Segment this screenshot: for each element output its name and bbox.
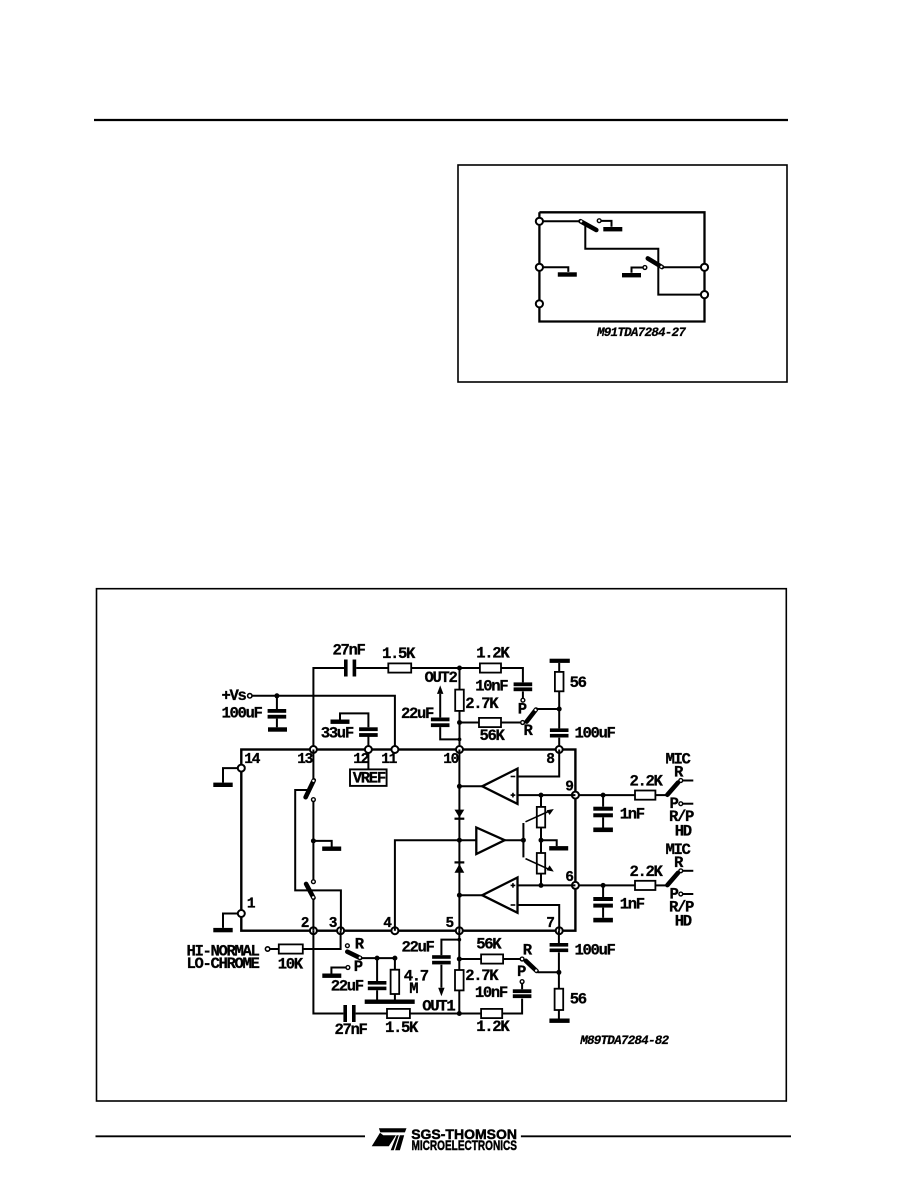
contact R (bottom left) xyxy=(346,944,350,948)
ground (P bottom left) xyxy=(322,974,341,978)
ground (internal) xyxy=(322,847,341,851)
svg-text:7: 7 xyxy=(546,916,554,932)
svg-text:9: 9 xyxy=(565,780,573,796)
svg-text:1.5K: 1.5K xyxy=(382,645,416,663)
capacitor 100uF (pin7) xyxy=(550,931,569,973)
svg-text:3: 3 xyxy=(329,916,337,932)
resistor 1.5K (bottom) xyxy=(387,1009,410,1018)
label 1nF ch1 xyxy=(620,805,645,823)
switch lever R/P (bottom) xyxy=(526,961,538,972)
junction: 1nF tap ch1 xyxy=(601,793,606,798)
junction: 22uF / pin10 riser xyxy=(458,738,462,742)
wire: pot chain xyxy=(540,795,542,885)
arrow OUT2 xyxy=(437,685,443,717)
svg-text:1nF: 1nF xyxy=(620,896,645,914)
capacitor 27nF (bottom) xyxy=(343,1005,355,1022)
svg-text:56K: 56K xyxy=(480,727,506,745)
fig1 caption M91TDA7284-27 xyxy=(596,326,686,340)
ground rail (22uF/4.7M) xyxy=(365,1000,415,1004)
label 33uF xyxy=(321,724,354,742)
label MIC ch2 xyxy=(666,841,691,859)
svg-text:10: 10 xyxy=(443,752,458,768)
pin 13 xyxy=(297,746,317,768)
wire: A1 inverting input to pin8 xyxy=(518,750,560,777)
contact P MIC ch2 xyxy=(679,892,693,896)
svg-text:22uF: 22uF xyxy=(331,978,364,996)
label LO-CHROME xyxy=(187,955,260,973)
ground (pin1) xyxy=(213,928,232,932)
fig1 wire: SW3 contact to ground xyxy=(632,268,644,273)
arrow OUT1 xyxy=(438,965,444,997)
capacitor 33uF xyxy=(359,727,378,737)
svg-text:1nF: 1nF xyxy=(620,805,645,823)
terminal +Vs xyxy=(248,694,252,698)
label R ch2 xyxy=(674,854,684,872)
capacitor 27nF (top) xyxy=(344,660,356,677)
top horizontal rule xyxy=(94,119,788,121)
label 1.2K (bottom) xyxy=(476,1018,510,1036)
ground (pot node) xyxy=(549,846,568,850)
wire: 2.2K to lever ch2 xyxy=(655,884,666,886)
label 22uF (OUT1) xyxy=(402,939,435,957)
label HI-NORMAL xyxy=(187,942,260,960)
resistor 1.2K (bottom) xyxy=(481,1009,502,1018)
svg-text:8: 8 xyxy=(546,752,554,768)
wire: node to internal ground xyxy=(313,841,331,847)
contact R (top) xyxy=(521,721,525,725)
wire: pin4 riser to A2 input xyxy=(395,840,476,931)
svg-text:22uF: 22uF xyxy=(401,705,434,723)
wire: A1 non-inverting input to pin9 xyxy=(518,794,576,796)
svg-text:+Vs: +Vs xyxy=(222,687,247,705)
contact R (bottom) xyxy=(520,957,524,961)
wire: 22uF to pin10 riser xyxy=(440,727,459,739)
svg-text:2.7K: 2.7K xyxy=(465,967,499,985)
wire: P contact to ground xyxy=(331,968,346,974)
ground (supply 100uF) xyxy=(268,727,287,731)
wire: pin1 to ground xyxy=(223,914,238,928)
label 100uF (supply) xyxy=(222,705,263,723)
svg-text:100uF: 100uF xyxy=(575,942,616,960)
svg-text:27nF: 27nF xyxy=(333,642,366,660)
label 56 (top) xyxy=(570,674,587,692)
pin 8 xyxy=(546,746,562,768)
junction: internal ground node xyxy=(311,838,316,843)
pin 6 xyxy=(565,870,579,889)
label HD ch1 xyxy=(675,822,692,840)
terminal HI/LO input xyxy=(265,947,269,951)
internal switch lever A xyxy=(306,780,315,798)
footer rule right xyxy=(521,1135,791,1137)
svg-text:M89TDA7284-82: M89TDA7284-82 xyxy=(579,1034,669,1048)
label 10nF (bottom) xyxy=(475,984,508,1002)
label R/P ch1 xyxy=(669,808,694,826)
capacitor 22uF (bottom left) xyxy=(368,958,387,999)
ground (pin14) xyxy=(213,783,232,787)
label 56 (bottom) xyxy=(570,991,587,1009)
wire: pin to 2.2K ch2 xyxy=(579,884,635,886)
ground (56 bottom) xyxy=(549,1019,569,1023)
pin 2 xyxy=(301,916,317,934)
label 27nF (bottom) xyxy=(335,1021,368,1039)
svg-text:OUT2: OUT2 xyxy=(425,669,458,687)
junction: lever node (top) xyxy=(557,707,562,712)
svg-text:11: 11 xyxy=(381,752,397,768)
wire: 27nF to 1.5K (bottom) xyxy=(356,1013,387,1015)
junction: riser / 56K (top) xyxy=(457,720,462,725)
footer rule left xyxy=(96,1135,366,1137)
wire: A2 out to P1 wiper xyxy=(522,823,524,840)
wire: 56K to R contact (top) xyxy=(501,722,520,724)
potentiometer P2 xyxy=(526,853,554,874)
resistor 2.2K ch2 xyxy=(635,881,655,890)
pin 14 xyxy=(238,752,261,772)
junction: top rail / pin10 riser xyxy=(457,666,462,671)
pin 3 xyxy=(329,916,344,934)
fig1 terminal T4 (right upper) xyxy=(701,264,708,271)
resistor 2.2K ch1 xyxy=(635,791,655,800)
resistor 56K (bottom) xyxy=(481,954,503,963)
label 27nF (top) xyxy=(333,642,366,660)
ground bar (56 top) xyxy=(550,659,570,663)
wire: A2 output xyxy=(505,838,526,843)
diode D2 xyxy=(455,861,465,873)
resistor 1.2K (top) xyxy=(480,663,501,672)
svg-text:1.5K: 1.5K xyxy=(385,1019,419,1037)
IC TDA7284 body xyxy=(241,750,575,931)
label R ch1 xyxy=(674,764,684,782)
svg-text:56: 56 xyxy=(570,674,587,692)
pin 11 xyxy=(381,746,398,768)
contact R MIC ch1 xyxy=(679,779,693,783)
fig1 wire: SW1 to SW3 link xyxy=(585,226,701,295)
resistor 56 (top) xyxy=(555,663,564,709)
wire: pin12 to VREF box xyxy=(367,750,369,770)
label 10nF (top) xyxy=(475,678,508,696)
resistor 2.7K (top) xyxy=(455,690,464,711)
pin 5 xyxy=(446,916,463,934)
resistor 10K xyxy=(279,944,303,953)
junction: 22uF tap (bottom left) xyxy=(375,956,380,961)
junction: 22uF OUT1 tap xyxy=(457,938,461,942)
wire: pin to 2.2K ch1 xyxy=(579,794,635,796)
contact R MIC ch2 xyxy=(679,869,693,873)
VREF box label xyxy=(350,769,387,787)
svg-text:5: 5 xyxy=(446,916,454,932)
label 10K xyxy=(278,955,304,973)
pin 12 xyxy=(353,746,372,768)
fig1 wire: SW3 pivot to T4 xyxy=(663,266,701,268)
pin 7 xyxy=(546,916,562,934)
pin 9 xyxy=(565,780,579,799)
junction: bottom rail / pin5 riser xyxy=(457,1011,462,1016)
svg-text:2.2K: 2.2K xyxy=(630,863,664,881)
svg-text:M: M xyxy=(409,980,418,998)
svg-text:VREF: VREF xyxy=(353,770,386,788)
logo text SGS-THOMSON xyxy=(411,1126,517,1142)
wire: A3 non-inverting input to pin6 xyxy=(518,884,576,886)
switch lever MIC ch1 xyxy=(667,783,678,795)
fig1 terminal T3 (bottom left) xyxy=(536,300,543,307)
svg-text:22uF: 22uF xyxy=(402,939,435,957)
svg-text:100uF: 100uF xyxy=(222,705,263,723)
fig1 wire: SW1 contact to ground xyxy=(601,221,611,227)
wire: riser to 56K (bottom) xyxy=(459,958,481,960)
op-amp A1 (record top) xyxy=(482,769,517,804)
label P (bottom left) xyxy=(354,958,363,976)
svg-text:56: 56 xyxy=(570,991,587,1009)
label 2.7K (top) xyxy=(465,695,499,713)
wire: 1.2K to 10nF corner xyxy=(501,668,523,682)
svg-text:1.2K: 1.2K xyxy=(476,1018,510,1036)
wire: node down to contact B xyxy=(312,841,314,880)
wire: internal bypass to pin3 xyxy=(295,790,341,931)
wire: 1.2K to 10nF corner (bottom) xyxy=(502,999,522,1014)
resistor 1.5K (top) xyxy=(388,663,411,672)
wire: 33uF to ground xyxy=(340,713,368,727)
label +Vs xyxy=(222,687,247,705)
wire: pin14 to ground xyxy=(223,768,238,783)
pin 1 xyxy=(238,897,256,917)
fig1 ground (SW3 throw) xyxy=(622,273,641,277)
svg-text:6: 6 xyxy=(565,870,573,886)
capacitor 1nF ch2 xyxy=(593,885,613,917)
label R (bottom left) xyxy=(355,936,365,954)
pin 4 xyxy=(383,916,398,934)
fig1 terminal T5 (right lower) xyxy=(701,291,708,298)
svg-text:OUT1: OUT1 xyxy=(422,998,455,1016)
wire: pin12 to 33uF xyxy=(367,736,369,750)
svg-text:10nF: 10nF xyxy=(475,678,508,696)
label 22uF (bottom left) xyxy=(331,978,364,996)
wire: pin13 to switch chain xyxy=(312,750,314,781)
wire: pin13 riser / top rail corner xyxy=(313,668,344,750)
svg-text:13: 13 xyxy=(297,752,312,768)
label R (top switch) xyxy=(524,722,534,740)
capacitor 10nF (top) xyxy=(514,682,533,698)
wire: pin2 riser / bottom rail corner xyxy=(313,931,343,1014)
svg-text:2.7K: 2.7K xyxy=(465,695,499,713)
label OUT1 xyxy=(422,998,455,1016)
wire: terminal to 10K xyxy=(270,948,279,950)
switch lever R/P (bottom left) xyxy=(347,952,361,959)
svg-text:M91TDA7284-27: M91TDA7284-27 xyxy=(596,326,686,340)
potentiometer P1 xyxy=(526,807,554,828)
svg-text:MICROELECTRONICS: MICROELECTRONICS xyxy=(412,1138,518,1154)
internal switch lever B xyxy=(306,884,314,899)
internal contact B xyxy=(312,880,316,884)
wire: lever to 56/100uF node (top) xyxy=(536,708,559,710)
fig2 caption M89TDA7284-82 xyxy=(579,1034,669,1048)
fig1 ground (T2 throw) xyxy=(558,272,577,276)
label R/P ch2 xyxy=(669,898,694,916)
contact P (top) xyxy=(521,698,525,702)
svg-text:27nF: 27nF xyxy=(335,1021,368,1039)
capacitor 100uF (pin8) xyxy=(550,709,569,750)
fig1 terminal T1 (top left) xyxy=(536,218,543,225)
op-amp A2 (line driver) xyxy=(476,828,504,855)
wire: lever B to pin2 xyxy=(312,899,314,931)
op-amp A3 (record bottom) xyxy=(482,878,517,913)
label 1.2K (top) xyxy=(476,645,510,663)
contact P (bottom) xyxy=(520,980,524,984)
wire: A2 out to P2 wiper xyxy=(522,840,524,857)
wire: pin10 riser xyxy=(459,668,461,750)
ground (1nF ch1) xyxy=(593,828,613,833)
wire: 1.5K to 1.2K rail xyxy=(411,667,480,669)
label P ch2 xyxy=(670,885,679,903)
capacitor 100uF (supply) xyxy=(268,696,287,728)
wire: lever to 100uF/56 node (bottom) xyxy=(538,971,559,973)
svg-text:1.2K: 1.2K xyxy=(476,645,510,663)
junction: A2 input / pin10 line xyxy=(457,838,462,843)
junction: lever node (bottom) xyxy=(556,970,561,975)
ground (33uF) xyxy=(331,720,350,724)
wire: riser to 56K (top) xyxy=(460,722,480,724)
fig1 wire: T1 to switch SW1 pivot xyxy=(543,220,580,222)
fig1 switch SW1 contact xyxy=(597,219,601,223)
label P ch1 xyxy=(670,795,679,813)
label P (top switch) xyxy=(518,700,527,718)
svg-text:10K: 10K xyxy=(278,955,304,973)
label 2.2K ch1 xyxy=(630,773,664,791)
label R (bottom switch) xyxy=(523,942,533,960)
contact P (bottom left) xyxy=(346,966,350,970)
label 22uF (OUT2) xyxy=(401,705,434,723)
label OUT2 xyxy=(425,669,458,687)
junction: 1nF tap ch2 xyxy=(601,883,606,888)
svg-text:33uF: 33uF xyxy=(321,724,354,742)
ground (1nF ch2) xyxy=(593,918,613,923)
fig1 terminal T2 (middle left) xyxy=(536,264,543,271)
switch lever MIC ch2 xyxy=(667,873,678,885)
label 1nF ch2 xyxy=(620,896,645,914)
wire: contact A down to ground node xyxy=(312,801,314,841)
svg-text:HD: HD xyxy=(675,822,692,840)
junction: +Vs / 100uF xyxy=(274,693,279,698)
fig1 ground (SW1 throw) xyxy=(603,227,622,231)
label 1.5K (bottom) xyxy=(385,1019,419,1037)
wire: 10K to pin3 xyxy=(303,931,341,949)
capacitor 1nF ch1 xyxy=(593,795,613,827)
svg-text:12: 12 xyxy=(353,752,368,768)
wire: pin5 riser xyxy=(458,931,460,1014)
junction: pin4 riser node xyxy=(392,956,397,961)
contact P MIC ch1 xyxy=(679,802,693,806)
capacitor 22uF (OUT2) xyxy=(431,718,450,728)
resistor 56K (top) xyxy=(479,718,501,727)
label 4.7M xyxy=(404,967,429,998)
svg-text:P: P xyxy=(354,958,363,976)
svg-text:P: P xyxy=(517,963,526,981)
svg-text:2.2K: 2.2K xyxy=(630,773,664,791)
SGS-Thomson ST logo xyxy=(372,1128,407,1150)
figure 1 border box xyxy=(458,165,787,382)
resistor 4.7M xyxy=(391,958,400,999)
wire: +Vs to pin11 xyxy=(252,696,395,750)
wire: A3 inverting input to pin7 xyxy=(518,905,560,931)
label 56K (top) xyxy=(480,727,506,745)
resistor 56 (bottom) xyxy=(555,972,564,1018)
svg-text:2: 2 xyxy=(301,916,309,932)
junction: riser / 56K (bottom) xyxy=(457,957,462,962)
svg-text:HD: HD xyxy=(675,913,692,931)
label 100uF (pin7) xyxy=(575,942,616,960)
switch lever R/P (top) xyxy=(527,709,537,722)
label MIC ch1 xyxy=(666,751,691,769)
wire: pin5 node to 22uF (OUT1) xyxy=(441,940,459,956)
svg-text:LO-CHROME: LO-CHROME xyxy=(187,955,260,973)
svg-text:100uF: 100uF xyxy=(575,724,616,742)
wire: 56K to R contact (bottom) xyxy=(503,958,520,960)
label HD ch2 xyxy=(675,913,692,931)
wire: 27nF to 1.5K xyxy=(356,667,388,669)
label 100uF (pin8) xyxy=(575,724,616,742)
wire: 2.2K to lever ch1 xyxy=(655,794,666,796)
wire: A3 output to pin10 line xyxy=(457,893,482,898)
label P (bottom switch) xyxy=(517,963,526,981)
svg-text:14: 14 xyxy=(244,752,260,768)
wire: lever to pin4 riser xyxy=(361,957,395,959)
wire: A1 output to pin10 line xyxy=(457,784,482,789)
pin 10 xyxy=(443,746,463,768)
fig1 switch SW3 contact xyxy=(643,266,647,270)
fig1 wire: T2 to ground stub xyxy=(543,267,568,272)
logo text MICROELECTRONICS xyxy=(412,1138,518,1154)
label 56K (bottom) xyxy=(476,936,502,954)
label 2.7K (bottom) xyxy=(465,967,499,985)
resistor 2.7K (bottom) xyxy=(455,970,464,990)
figure 2 border box xyxy=(97,589,787,1101)
svg-text:56K: 56K xyxy=(476,936,502,954)
label 2.2K ch2 xyxy=(630,863,664,881)
svg-text:10nF: 10nF xyxy=(475,984,508,1002)
fig1 switch SW3 lever xyxy=(648,258,663,268)
wire: pin10 to pin5 line xyxy=(458,750,460,931)
fig1 switch SW1 lever xyxy=(580,220,596,230)
diode D1 xyxy=(455,810,465,820)
capacitor 10nF (bottom) xyxy=(513,984,532,999)
label 1.5K (top) xyxy=(382,645,416,663)
capacitor 22uF (OUT1) xyxy=(432,955,451,964)
wire: 1.5K to 1.2K (bottom rail) xyxy=(410,1013,481,1015)
svg-text:P: P xyxy=(518,700,527,718)
wire: pot node to internal ground 2 xyxy=(541,840,557,846)
fig1 wire: outer loop xyxy=(539,212,704,321)
internal contact A xyxy=(312,798,316,802)
